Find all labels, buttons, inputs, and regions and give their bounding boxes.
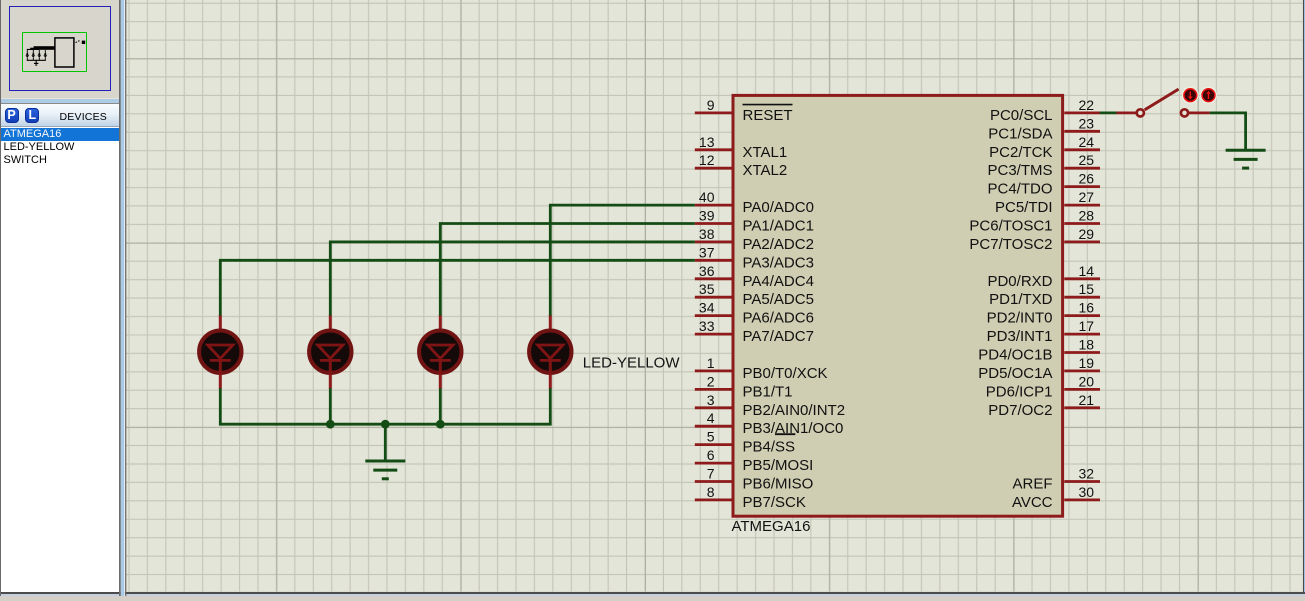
overview panel	[0, 0, 119, 98]
pin 13 XTAL1 (left)	[695, 134, 787, 161]
svg-text:8: 8	[707, 484, 715, 500]
mini chip	[55, 38, 74, 67]
svg-text:19: 19	[1079, 355, 1095, 371]
LED D2 LED-YELLOW	[309, 315, 351, 389]
svg-text:38: 38	[699, 226, 715, 242]
pin 1 PB0/T0/XCK (left)	[695, 355, 828, 382]
svg-text:PC1/SDA: PC1/SDA	[988, 125, 1052, 142]
splitter	[119, 0, 126, 596]
svg-text:PB7/SCK: PB7/SCK	[743, 494, 806, 511]
svg-text:PB6/MISO: PB6/MISO	[743, 476, 814, 493]
svg-text:24: 24	[1079, 134, 1095, 150]
svg-text:LED-YELLOW: LED-YELLOW	[583, 355, 681, 372]
svg-text:PB0/T0/XCK: PB0/T0/XCK	[743, 365, 828, 382]
svg-text:PC4/TDO: PC4/TDO	[987, 181, 1052, 198]
svg-text:PC0/SCL: PC0/SCL	[990, 107, 1053, 124]
svg-text:AREF: AREF	[1012, 476, 1052, 493]
LED D1 LED-YELLOW	[199, 315, 241, 389]
svg-text:7: 7	[707, 466, 715, 482]
svg-text:3: 3	[707, 392, 715, 408]
svg-text:PA3/ADC3: PA3/ADC3	[743, 254, 814, 271]
svg-text:16: 16	[1079, 300, 1095, 316]
svg-text:PD2/INT0: PD2/INT0	[987, 310, 1053, 327]
mini LEDs	[25, 50, 47, 60]
wire PA0-D4	[550, 205, 695, 315]
svg-text:5: 5	[707, 429, 715, 445]
wire PC0 to switch	[1100, 112, 1117, 115]
pin 22 PC0/SCL (right)	[990, 97, 1100, 124]
pin 25 PC3/TMS (right)	[987, 152, 1100, 179]
svg-text:PB5/MOSI: PB5/MOSI	[743, 457, 814, 474]
pin 37 PA3/ADC3 (left)	[695, 244, 814, 271]
pin 34 PA6/ADC6 (left)	[695, 300, 814, 327]
svg-text:26: 26	[1079, 171, 1095, 187]
pin 21 PD7/OC2 (right)	[988, 392, 1100, 419]
pin 2 PB1/T1 (left)	[695, 373, 793, 400]
mini ground	[35, 60, 37, 63]
switch actuator down button	[1183, 88, 1198, 103]
svg-text:PD7/OC2: PD7/OC2	[988, 402, 1052, 419]
svg-text:18: 18	[1079, 337, 1095, 353]
ground (LED bus)	[365, 461, 405, 479]
wire cathode bus	[220, 388, 550, 424]
pin 27 PC5/TDI (right)	[995, 189, 1100, 216]
ground (switch)	[1226, 150, 1266, 168]
pin 26 PC4/TDO (right)	[987, 171, 1100, 198]
junction at D2	[326, 420, 335, 429]
svg-text:21: 21	[1079, 392, 1095, 408]
LED D3 LED-YELLOW	[419, 315, 461, 389]
svg-text:2: 2	[707, 373, 715, 389]
svg-text:XTAL1: XTAL1	[743, 144, 788, 161]
svg-text:17: 17	[1079, 318, 1095, 334]
wire PA1-D3	[440, 224, 695, 316]
svg-text:30: 30	[1079, 484, 1095, 500]
svg-text:PA2/ADC2: PA2/ADC2	[743, 236, 814, 253]
svg-text:PC3/TMS: PC3/TMS	[987, 162, 1052, 179]
switch actuator up button	[1201, 88, 1216, 103]
pin 6 PB5/MOSI (left)	[695, 447, 814, 474]
svg-text:PD3/INT1: PD3/INT1	[987, 328, 1053, 345]
svg-text:PC6/TOSC1: PC6/TOSC1	[969, 218, 1052, 235]
svg-text:PB2/AIN0/INT2: PB2/AIN0/INT2	[743, 402, 846, 419]
svg-text:14: 14	[1079, 263, 1095, 279]
svg-text:40: 40	[699, 189, 715, 205]
LED D4 LED-YELLOW	[529, 315, 571, 389]
pin 30 AVCC (right)	[1012, 484, 1100, 511]
svg-text:PC5/TDI: PC5/TDI	[995, 199, 1053, 216]
pin 28 PC6/TOSC1 (right)	[969, 208, 1100, 235]
pin 3 PB2/AIN0/INT2 (left)	[695, 392, 845, 419]
pin 8 PB7/SCK (left)	[695, 484, 806, 511]
svg-text:PB4/SS: PB4/SS	[743, 439, 796, 456]
svg-text:35: 35	[699, 281, 715, 297]
pin 39 PA1/ADC1 (left)	[695, 208, 814, 235]
mini switch	[76, 40, 81, 42]
svg-text:PC7/TOSC2: PC7/TOSC2	[969, 236, 1052, 253]
svg-text:20: 20	[1079, 373, 1095, 389]
svg-text:33: 33	[699, 318, 715, 334]
pin 4 PB3/AIN1/OC0 (left)	[695, 410, 844, 437]
pin 7 PB6/MISO (left)	[695, 466, 814, 493]
pin 35 PA5/ADC5 (left)	[695, 281, 814, 308]
svg-text:22: 22	[1079, 97, 1095, 113]
svg-text:12: 12	[699, 152, 715, 168]
svg-text:ATMEGA16: ATMEGA16	[732, 518, 811, 535]
svg-text:PD4/OC1B: PD4/OC1B	[978, 347, 1052, 364]
pin 16 PD2/INT0 (right)	[987, 300, 1100, 327]
pin 12 XTAL2 (left)	[695, 152, 787, 179]
wire PA2-D2	[330, 242, 695, 316]
pin 19 PD5/OC1A (right)	[978, 355, 1100, 382]
mini wire bundle	[27, 49, 39, 50]
pin 17 PD3/INT1 (right)	[987, 318, 1100, 345]
pin 5 PB4/SS (left)	[695, 429, 796, 456]
pin 20 PD6/ICP1 (right)	[986, 373, 1100, 400]
svg-text:PA0/ADC0: PA0/ADC0	[743, 199, 814, 216]
svg-text:23: 23	[1079, 115, 1095, 131]
svg-text:PD6/ICP1: PD6/ICP1	[986, 383, 1053, 400]
svg-text:PD0/RXD: PD0/RXD	[987, 273, 1052, 290]
pin 15 PD1/TXD (right)	[989, 281, 1100, 308]
svg-text:PD5/OC1A: PD5/OC1A	[978, 365, 1052, 382]
svg-text:36: 36	[699, 263, 715, 279]
svg-text:34: 34	[699, 300, 715, 316]
svg-text:PD1/TXD: PD1/TXD	[989, 291, 1053, 308]
svg-text:25: 25	[1079, 152, 1095, 168]
svg-text:PA1/ADC1: PA1/ADC1	[743, 218, 814, 235]
svg-text:PA6/ADC6: PA6/ADC6	[743, 310, 814, 327]
pin 9 RESET (left)	[695, 97, 793, 124]
pin 14 PD0/RXD (right)	[987, 263, 1100, 290]
pin 24 PC2/TCK (right)	[989, 134, 1100, 161]
wire D3 cathode drop	[439, 388, 442, 424]
op: IC U1 ATMEGA16 body	[733, 95, 1063, 516]
svg-text:PA4/ADC4: PA4/ADC4	[743, 273, 814, 290]
switch SW1	[1116, 89, 1210, 116]
pin 40 PA0/ADC0 (left)	[695, 189, 814, 216]
svg-text:15: 15	[1079, 281, 1095, 297]
svg-text:37: 37	[699, 244, 715, 260]
svg-text:4: 4	[707, 410, 715, 426]
wire bus to ground	[384, 424, 387, 461]
pin 33 PA7/ADC7 (left)	[695, 318, 814, 345]
pin 23 PC1/SDA (right)	[988, 115, 1100, 142]
junction at ground tap	[381, 420, 390, 429]
svg-text:13: 13	[699, 134, 715, 150]
pin 36 PA4/ADC4 (left)	[695, 263, 814, 290]
svg-text:AVCC: AVCC	[1012, 494, 1053, 511]
pin 29 PC7/TOSC2 (right)	[969, 226, 1100, 253]
svg-text:29: 29	[1079, 226, 1095, 242]
svg-text:28: 28	[1079, 208, 1095, 224]
mini schematic	[0, 0, 119, 98]
svg-text:PA7/ADC7: PA7/ADC7	[743, 328, 814, 345]
wire D2 cathode drop	[329, 388, 332, 424]
device list	[0, 127, 119, 592]
svg-text:32: 32	[1079, 466, 1095, 482]
svg-text:PC2/TCK: PC2/TCK	[989, 144, 1052, 161]
devices header	[0, 103, 119, 128]
svg-text:XTAL2: XTAL2	[743, 162, 788, 179]
pin 18 PD4/OC1B (right)	[978, 337, 1100, 364]
wire switch to ground	[1210, 113, 1246, 150]
svg-text:39: 39	[699, 208, 715, 224]
wire PA3-D1	[220, 260, 695, 315]
svg-text:1: 1	[707, 355, 715, 371]
pin 32 AREF (right)	[1012, 466, 1100, 493]
svg-text:6: 6	[707, 447, 715, 463]
svg-text:9: 9	[707, 97, 715, 113]
svg-text:PB1/T1: PB1/T1	[743, 383, 793, 400]
svg-text:PA5/ADC5: PA5/ADC5	[743, 291, 814, 308]
pin 38 PA2/ADC2 (left)	[695, 226, 814, 253]
svg-text:RESET: RESET	[743, 107, 793, 124]
svg-text:27: 27	[1079, 189, 1095, 205]
junction at D3	[436, 420, 445, 429]
